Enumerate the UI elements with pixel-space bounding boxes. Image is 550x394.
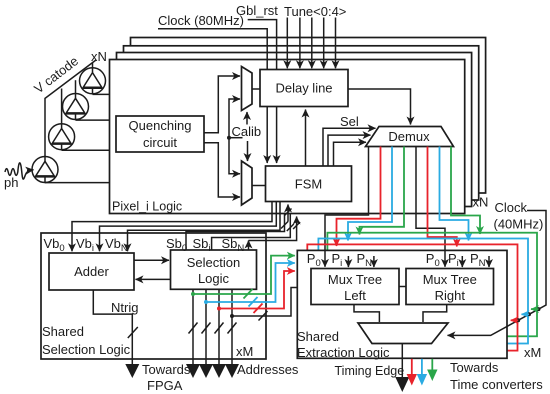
wire Selection Logic to Adder <box>136 278 171 280</box>
SPAD cathode bus V catode <box>45 60 96 156</box>
bus slash on Sb0 <box>281 222 288 229</box>
wire Pi right arrow <box>461 256 463 267</box>
node red tap on address wire 2 <box>217 307 221 311</box>
wire red to extraction box <box>219 271 295 309</box>
wire Clock 40MHz bracket and select diagonal <box>448 211 547 336</box>
wire P0 right re-entry <box>444 250 446 266</box>
node black tap on address wire 3 <box>230 314 234 318</box>
wire quench to bottom mux input <box>204 143 240 197</box>
pixel instance box (3rd) <box>124 46 479 200</box>
wire timing red instance <box>411 359 413 375</box>
svg-text:Selection Logic: Selection Logic <box>42 342 131 357</box>
wire PN right arrow <box>488 256 490 267</box>
svg-text:Delay line: Delay line <box>275 81 332 96</box>
svg-text:Adder: Adder <box>74 264 109 279</box>
wire Timing Edge output <box>401 344 403 378</box>
svg-text:xM: xM <box>236 344 253 359</box>
svg-text:Towards: Towards <box>142 362 191 377</box>
svg-text:Sel: Sel <box>340 114 359 129</box>
wire black to Mux Tree Left <box>232 288 309 317</box>
wire green to extraction box <box>193 256 295 294</box>
wire Calib underline <box>229 137 243 139</box>
wire demux out black (right group, to Mux Tree Right P0) <box>416 147 445 267</box>
svg-text:Extraction Logic: Extraction Logic <box>297 345 390 360</box>
wire demux out red (left group) <box>337 147 381 247</box>
wire SPAD1 anode to pixel box <box>93 93 110 95</box>
wire PN left arrow <box>373 256 375 267</box>
wire Tune bit0 into Delay line <box>286 18 288 69</box>
arrowhead Timing Edge black <box>395 377 409 392</box>
wire Mux Tree Right to final mux <box>423 305 447 323</box>
wire SPAD2 anode to pixel box <box>76 119 110 121</box>
extraction instance rect red <box>307 244 517 350</box>
wire address 0 <box>192 289 194 364</box>
wire Delay line to Demux top <box>348 89 411 125</box>
wire Ntrig from Adder <box>93 290 132 364</box>
node clock tap cyan layer <box>527 312 531 316</box>
extraction instance rect cyan <box>318 239 528 344</box>
wire SPAD4 anode to pixel box <box>45 182 110 184</box>
wire Tune bit1 <box>299 18 301 69</box>
wire quenching output split <box>204 76 240 133</box>
svg-text:xM: xM <box>524 345 541 360</box>
wire SbN up arrow at label <box>248 241 250 251</box>
wire FSM to Demux input 2 <box>328 135 371 166</box>
svg-text:Clock: Clock <box>495 200 528 215</box>
bus slash on Ntrig <box>128 327 138 338</box>
Selection Logic box <box>171 250 257 289</box>
wire Tune bit2 <box>311 18 313 69</box>
arrowhead Towards FPGA <box>125 364 139 378</box>
wire FSM to Demux input 3 <box>334 142 367 166</box>
node Calib junction <box>227 136 231 140</box>
wire Gbl_rst vertical into FSM <box>248 20 277 163</box>
mux M3 (final extraction mux) <box>358 323 448 344</box>
svg-text:Selection: Selection <box>187 255 240 270</box>
wire clock mini arrow cyan layer <box>522 313 530 315</box>
svg-text:xN: xN <box>473 195 489 210</box>
svg-text:Timing Edge: Timing Edge <box>335 364 405 378</box>
wire Vb0 from FSM to Adder <box>72 202 272 252</box>
svg-text:Left: Left <box>344 288 366 303</box>
wire Adder to Selection Logic <box>134 259 169 261</box>
wire address 3 <box>231 289 233 364</box>
svg-text:Ntrig: Ntrig <box>111 300 138 315</box>
wire Calib select down arrow into bottom mux <box>247 141 249 161</box>
wire Calib select up arrow into top mux <box>246 112 248 125</box>
photon squiggle arrow ph <box>5 163 28 179</box>
mux M2 (bottom calibration mux) <box>242 161 253 205</box>
svg-text:Shared: Shared <box>297 329 339 344</box>
wire demux out black instance i (to Mux Tree Left P0) <box>325 147 369 267</box>
svg-text:Towards: Towards <box>450 360 499 375</box>
svg-text:Tune<0:4>: Tune<0:4> <box>284 4 346 19</box>
wire Ntrig into FSM bottom (up arrow) <box>287 205 289 222</box>
wire bottom mux output to FSM <box>252 185 266 187</box>
wire VbN from FSM to Adder <box>128 202 281 252</box>
svg-text:Logic: Logic <box>198 271 230 286</box>
svg-text:circuit: circuit <box>143 135 177 150</box>
wire Calib to bottom mux upper input <box>229 138 240 174</box>
wire top mux output to Delay line <box>252 88 260 90</box>
wire Pi left arrow <box>347 256 349 267</box>
wire connector between trees <box>399 286 406 288</box>
svg-text:ph: ph <box>4 175 18 190</box>
wire SPAD3 anode to pixel box <box>62 149 110 151</box>
bus slash black <box>259 311 268 321</box>
wire FSM Sel to Demux <box>323 128 376 166</box>
pixel instance box xN (back, instance N) <box>131 38 486 194</box>
svg-text:(40MHz): (40MHz) <box>494 217 544 232</box>
svg-text:Right: Right <box>435 288 466 303</box>
wire cyan to extraction box <box>206 263 295 302</box>
wire Calib to top mux lower input <box>229 99 240 138</box>
wire address 2 <box>218 289 220 364</box>
Adder box <box>49 253 134 290</box>
Mux Tree Left box <box>311 269 399 305</box>
node green tap on address wire 0 <box>191 292 195 296</box>
bus slash cyan <box>249 297 258 307</box>
wire clock mini arrow green layer <box>531 308 539 310</box>
wire Vbi from FSM to Adder <box>100 202 277 252</box>
Delay line box <box>260 70 348 107</box>
Quenching circuit box <box>116 116 204 152</box>
wire clock mini arrow red layer <box>511 319 519 321</box>
wire Tune bit3 <box>323 18 325 69</box>
pixel instance box Pixel_i Logic (front) <box>110 60 465 214</box>
node cyan tap on address wire 1 <box>204 300 208 304</box>
wire FSM feedback up into Delay line <box>305 110 307 167</box>
svg-text:FSM: FSM <box>295 177 322 192</box>
wire demux out cyan (left group) <box>348 147 392 241</box>
bus slash red <box>254 304 263 314</box>
wire timing green instance <box>431 359 433 370</box>
svg-text:Demux: Demux <box>388 129 430 144</box>
svg-text:Mux Tree: Mux Tree <box>423 272 477 287</box>
svg-text:Addresses: Addresses <box>237 362 299 377</box>
wire demux out green (left group) <box>360 147 405 235</box>
svg-text:Time converters: Time converters <box>450 377 543 392</box>
bus slash on SbN <box>293 222 300 229</box>
wire Sbi from Selection Logic up into pixel <box>212 214 291 251</box>
bus slashes on address wires <box>189 323 237 334</box>
wire demux out cyan (right group) <box>440 147 469 241</box>
Mux Tree Right box <box>406 269 494 305</box>
svg-text:Pixel_i Logic: Pixel_i Logic <box>112 200 182 214</box>
wire timing cyan instance <box>421 359 423 375</box>
svg-text:Shared: Shared <box>42 324 84 339</box>
bus slash green <box>244 289 253 299</box>
wire address 1 <box>205 289 207 364</box>
Shared Selection Logic outer box <box>41 233 266 359</box>
svg-text:Calib: Calib <box>232 124 262 139</box>
wire Mux Tree Left to final mux <box>354 305 379 323</box>
bus slash on Ntrig-FSM arrow <box>285 209 292 216</box>
Shared Extraction Logic box (front) <box>297 250 507 358</box>
Demux trapezoid <box>366 127 454 147</box>
wire P0 left re-entry (drawn above rects) <box>324 250 326 266</box>
FSM box <box>266 166 352 202</box>
bus slash on Sbi <box>287 224 294 231</box>
arrowheads Addresses <box>186 364 200 378</box>
wire demux out green (right group) <box>451 147 480 235</box>
svg-text:Quenching: Quenching <box>129 118 192 133</box>
pixel instance box (2nd) <box>117 53 472 207</box>
SPAD D2 <box>63 80 89 120</box>
SPAD D1 (top) <box>80 63 106 95</box>
node clock tap red layer <box>516 318 520 322</box>
wire demux out red (right group) <box>428 147 457 247</box>
wire Tune bit4 <box>335 18 337 69</box>
mux M1 (top calibration mux) <box>242 67 253 111</box>
wire Sb0 from Selection Logic up into pixel <box>186 214 285 251</box>
wire SbN up into pixel bottom <box>249 217 297 241</box>
svg-text:FPGA: FPGA <box>147 378 183 393</box>
extraction instance rect green (xM back) <box>327 233 537 337</box>
SPAD D3 <box>49 89 75 151</box>
SPAD D4 (bottom, ph input) <box>32 155 58 183</box>
svg-text:Clock (80MHz): Clock (80MHz) <box>158 13 244 28</box>
node clock tap green layer <box>537 307 541 311</box>
wire Clock 80MHz vertical into FSM <box>158 29 267 163</box>
svg-text:Mux Tree: Mux Tree <box>328 272 382 287</box>
svg-text:xN: xN <box>91 49 107 64</box>
